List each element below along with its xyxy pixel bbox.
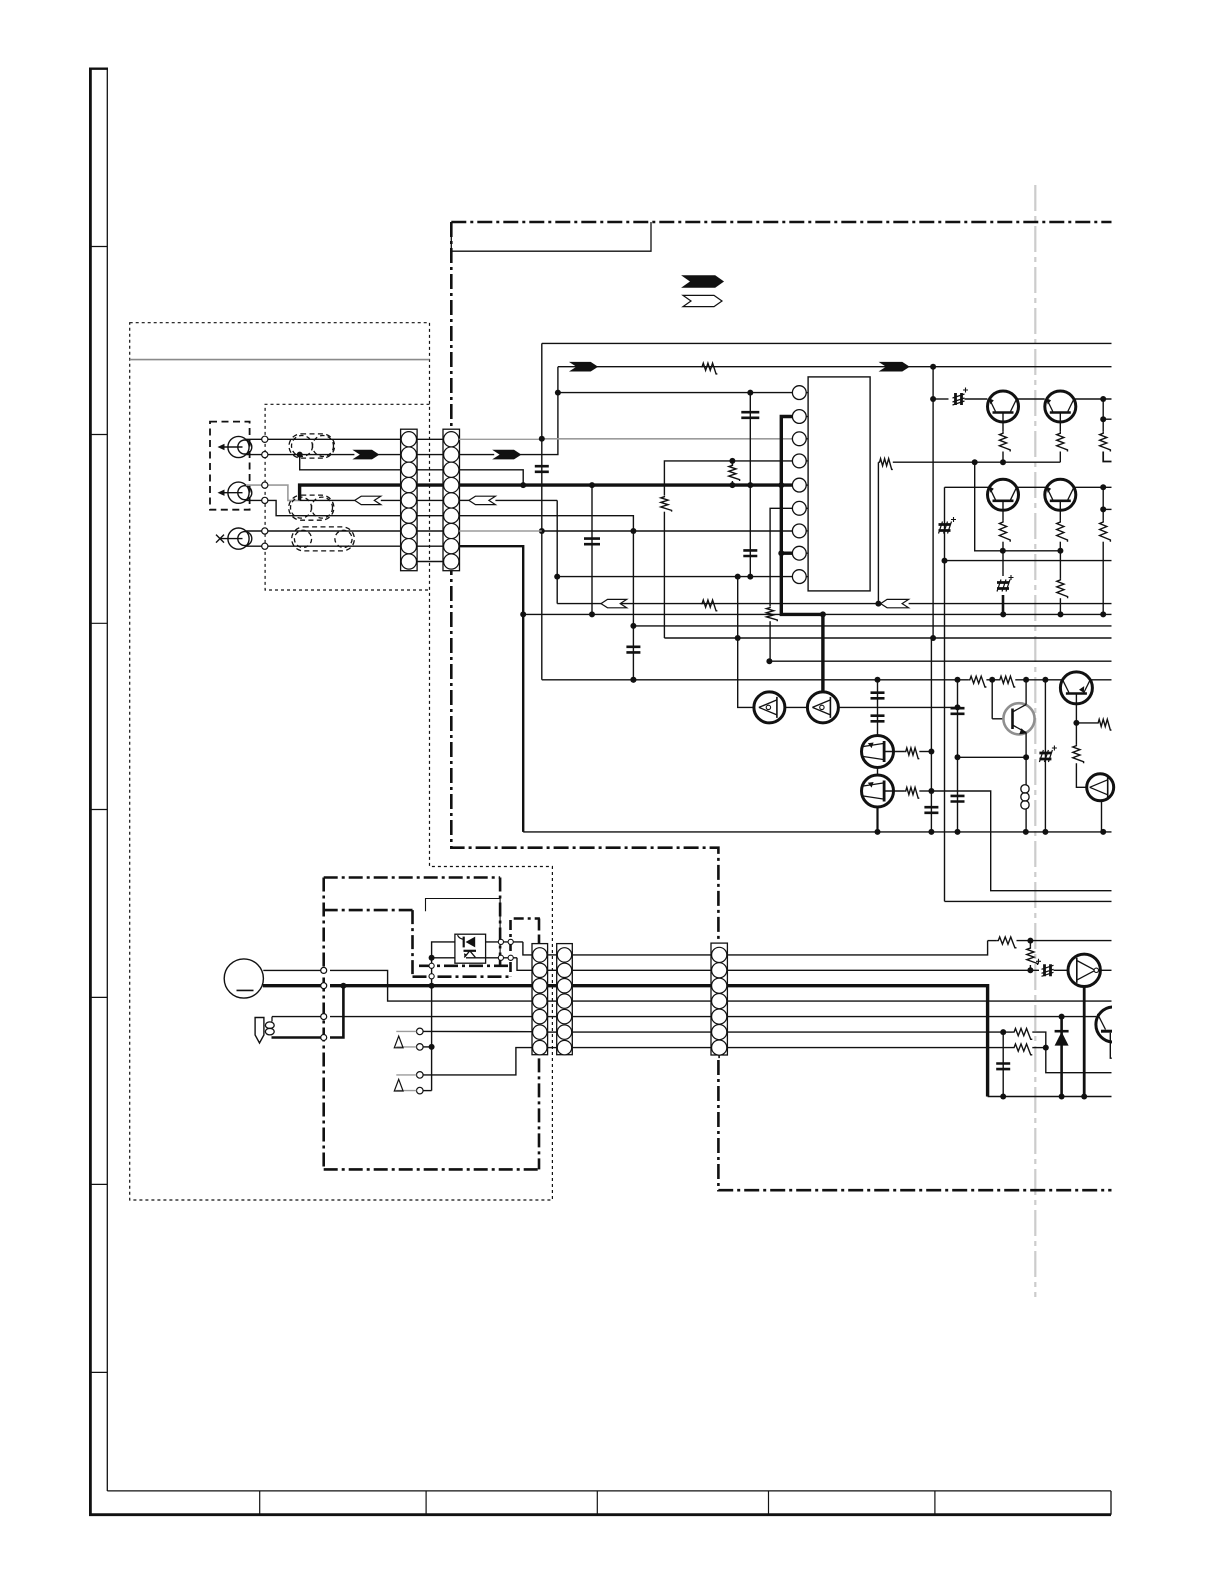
white arrow J2 monitor line [355,496,381,504]
J3 pin wires [246,530,401,532]
Q6 emitter to y832 rail [1101,801,1103,832]
jack J2 (LINE OUT R) [218,482,252,503]
emitter rail row1 y462.2 [893,461,1061,463]
vertical x933.1 B+ branch [932,367,934,638]
wire to polarized cap C10h and Q1 [933,398,948,400]
row4 [727,1000,1111,1002]
wire IC pin4 row [664,461,792,495]
gray fold crease line [1034,185,1036,1297]
main PCB dash-dot border bottom [718,1060,1111,1190]
heavy dashed box around jacks J1 J2 [210,422,250,510]
LED symbol [466,937,476,948]
vertical x878.4 down to mute line [877,462,879,603]
shielded cable symbol W3 [292,527,355,551]
wire pin7 net to IC pin7 [542,530,793,532]
P1-P2 mating links [417,439,443,561]
vertical x664.4 to y638 [663,512,665,638]
polarized cap column x1003 below row2 [1002,551,1004,576]
wire y679.8 rail [542,679,969,681]
leaf switch SW1 [417,1028,424,1035]
black arrow rail left [571,363,597,371]
vertical x750.3 with C2 C5 [749,393,751,577]
gray label underline in dotted box [130,359,430,361]
mechanism dash-dot lower bottom [419,964,511,967]
shielded cable symbol W2 [289,495,334,520]
motor M1 [224,959,263,998]
thick IC pin2 trace [781,417,823,615]
Q13 emitter thick to ground [1083,987,1086,1097]
resistor R x664.4 [661,495,672,511]
black arrow J1 out line [354,450,378,458]
T-feed vertical x737.7 to T9 [738,577,754,708]
connector P3 [711,943,727,1055]
ground rail bottom right [988,1096,1112,1098]
Q7 collector emitter vertical [1025,680,1027,705]
terminal posts on shield boundary [262,436,268,549]
wire IC pin1 feed [558,392,793,394]
sensor interface dash-dot box right [509,920,512,976]
mechanism dash-dot bottom [324,1168,539,1171]
mechanism dash-dot boundary left [322,878,325,1170]
resistor on mute line [701,600,718,611]
thick signal bus P2 pin4 to IC pin5 [459,483,792,486]
connector P4 [532,944,548,1055]
vertical x931.4 with cap C10 [930,638,932,832]
Q5 transistor pnp [1060,672,1092,704]
sensor interface dash-dot box top [514,917,540,920]
row5 with diode [727,1016,1096,1018]
motor wires [263,969,323,971]
Q3 transistor [988,479,1019,510]
Q2 transistor [1045,391,1076,422]
mechanism dash-dot below connector P4 [538,1058,541,1169]
Q13 output follower [1068,954,1100,986]
row3 thick to corner down [727,986,988,1097]
Q5 to Q6 wire [1076,763,1087,787]
Q10 output to cap column [838,706,957,708]
Q12 transistor [862,775,894,807]
cap stack C6 C7 x877.5 [877,680,879,736]
legend arrow solid (signal route) [683,276,723,287]
jack J1 (LINE OUT L) [218,436,252,457]
wire y638 rail [664,637,1111,639]
J2 thick L to connector pin4 [300,485,401,500]
photo interrupter box [455,934,486,963]
connector P5 [557,944,573,1055]
row1 to resistor jog [727,941,988,955]
capacitor C1 on riser x541.8 [541,439,543,680]
Q1 transistor [1017,398,1045,400]
page border bottom thin rule [107,1490,1111,1492]
J2 top pin gray segment [246,485,300,500]
row2 top rail y487.3 [945,486,1112,488]
resistor on rail y367 [701,363,718,374]
Q3 emitter resistor [1002,510,1004,520]
white arrow mute line right [881,599,909,607]
page border left inner thin rule [106,69,108,1492]
white arrow P2 pin5 [469,496,496,504]
Q4 emitter resistor [1059,510,1061,520]
Q11 base resistor [884,751,905,753]
J1 pin wires to terminal posts [246,438,401,440]
main PCB dash-dot border through connector P3 [718,943,720,1059]
wire B+ rail y367 with arrows [558,366,1112,368]
Q12 base resistor [884,790,905,792]
L-net x944.5 bottom to right [945,900,1112,902]
black arrow after P2 pin2 [494,450,520,458]
wire P2 pin1 to top rail riser x541.8 [459,438,542,440]
right column resistor R x1103 row1 [1102,399,1104,432]
Q14 edge transistor (clipped at page edge) [1096,1007,1131,1042]
mute transistors Q9 Q10 [754,692,785,723]
cap C11 x1003.2 [1002,1032,1004,1096]
jack J3 [216,528,252,549]
mechanism dash-dot inner left [411,910,414,977]
SW2 wiring [423,1048,532,1075]
wire y603.6 mute line [557,603,880,605]
mechanism dash-dot inner bottom [413,975,509,978]
polarized cap column x1045.4 [1044,680,1046,832]
vertical x974.7 to row2 rail [975,462,1061,551]
solid thin box around photo-interrupter [426,899,501,966]
mechanism dash-dot boundary right upper [499,878,502,966]
photo transistor symbol [464,950,477,952]
IC U1 pin circles [792,386,808,584]
sensor dash-dot drop into connector P4 [538,919,541,944]
row7 resistor net [727,1047,1012,1049]
wire y757.3 [958,756,1027,758]
wire y661.2 rail [769,660,1111,662]
resistor R x732.4 bus feedback [731,461,733,466]
gray net P2 pin1 to IC pin3 [542,438,793,440]
page border bottom right closing tick [1110,1491,1112,1515]
main PCB dash-dot border left and step to bottom connector [451,222,718,941]
page border left thick rule [89,68,92,1517]
capacitor C4 on x633.4 [626,647,640,653]
mechanism dash-dot inner top [324,909,413,912]
SW1 wiring [423,1030,532,1032]
wire IC pin6 drop x770.1 [770,508,792,606]
resistor stub off page y722.9 [1076,722,1097,724]
leaf switch SW2 [417,1072,424,1079]
vertical x592 with C3 [591,485,593,614]
white arrow mute line left [601,599,627,607]
J1 shield branch to connector pin3 [300,455,401,470]
Q6 transistor [1087,774,1114,801]
page border bottom fold ticks [260,1491,935,1515]
Q11 transistor [862,736,894,768]
right column resistor R x1103 row2 [1102,487,1104,520]
PCB name label box [451,222,651,251]
black arrow rail right [881,363,909,371]
Q1 emitter resistor [1002,422,1004,432]
opto wires right to connector P4 [486,941,523,943]
Q5 emitter branch [1075,704,1077,723]
resistor R x770.1 [767,606,778,621]
Q5 emitter resistor [1075,723,1077,744]
Q2 emitter resistor [1059,422,1061,432]
diode D1 [1060,1017,1063,1097]
wire y560.6 [945,560,1112,562]
wire y614.4 rail [523,613,1111,615]
vertical x1060.4 resistor to y614 rail [1059,551,1061,579]
net Q12 base to lower right [931,791,1111,891]
page border left fold ticks [89,247,107,1373]
inductor L1 [1025,757,1027,785]
vertical x957.5 with caps C8 C9 [957,680,959,832]
tape head [255,1018,264,1044]
IC U1 block [808,377,870,591]
resistor x1030.4 [1027,947,1038,965]
dotted inner shield boundary [265,404,429,590]
row6 resistor net [727,1031,1003,1033]
head coil wires [271,1017,273,1022]
boundary circles opto left vertical [429,963,434,968]
J2 net thin wire through white arrow to pin5 [300,499,355,501]
thick pin8 stub [781,552,792,555]
wire P2 pin6 jog down x633.4 [459,516,633,680]
resistor R on y679.8 right [999,676,1016,687]
Q9-Q10 link [785,706,808,708]
wire P2 pin2 riser to rail [520,367,558,455]
gray junction x541.8 y531 [539,528,545,534]
legend arrow open (signal route) [683,295,722,306]
thick drive to Q10 [821,614,824,692]
main PCB dash-dot border top [451,221,1111,224]
row2 wire with polarized cap and Q13 [727,969,1039,971]
dotted front-panel boundary box [130,323,553,1200]
Q11-Q12 stub [877,768,879,776]
wire P2 pin8 drop x523.2 to y832 rail [459,546,523,832]
Q7 driver transistor [991,680,993,719]
boundary feedthrough circles opto [498,939,503,944]
Q12 emitter to y832 rail [876,807,878,832]
gray net P2 pin7 segment [459,530,542,532]
harness wires P5 to P3 [573,955,711,1048]
mechanism dash-dot boundary top [324,876,500,879]
J2 bottom pin wire jog to pin6 [246,500,401,515]
polarized cap C10h [953,388,969,406]
page border bottom thick rule [89,1513,1111,1516]
resistor R on y679.8 left [968,676,986,687]
vertical x944.5 with polarized cap C11h [944,487,946,901]
P4-P5 mating links [547,955,558,1048]
wire y625.9 rail [633,625,1111,627]
junction pin1 feed on riser [555,390,561,396]
ground rail y831.9 [523,831,1111,833]
Q4 transistor [1045,479,1076,510]
wire net top rail y343 [542,342,1112,344]
connector P1 (board side) [401,429,418,571]
page border top cap [89,67,108,69]
wire IC pin9 row y576.6 [557,576,792,578]
opto wires left [432,942,455,1091]
shielded cable symbol W1 [289,434,335,458]
resistor at start of rail y462.2 [878,459,892,470]
boundary feedthrough circles motor [321,967,327,973]
wire P2 pin3 L down to main bus [459,470,523,485]
connector P2 (cable side) [443,429,460,571]
wire P2 pin5 through white arrow, riser x557.2 [459,499,469,501]
